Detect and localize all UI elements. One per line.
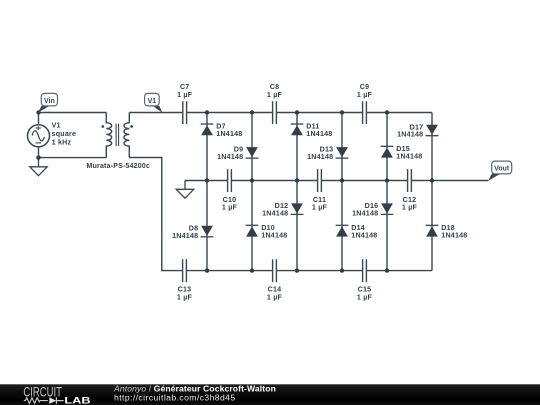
junction bottom rail D8 [205,268,209,272]
junction mid rail D7/D8 [205,178,209,182]
label D14 [351,224,377,239]
svg-text:1N4148: 1N4148 [441,231,467,239]
svg-text:1N4148: 1N4148 [352,209,378,217]
wire bottom rail segment C13 to C14 [187,270,272,272]
junction top rail D13 [340,110,344,114]
node flag V1 [145,93,163,112]
label C13 [177,285,193,301]
wire secondary bottom down to bottom rail [129,158,182,271]
capacitor C9 [363,101,367,124]
junction top rail D9 [250,110,254,114]
node flag Vin [38,93,58,112]
svg-text:1N4148: 1N4148 [261,231,287,239]
wire column D13 [341,113,343,181]
junction mid rail D13/D14 [340,178,344,182]
wire column D12 [296,181,298,271]
capacitor C10 [228,169,232,192]
diode D8 [201,226,214,237]
label C10 [222,196,238,212]
voltage source V1 value labels [52,122,77,147]
svg-text:C10: C10 [223,196,237,204]
label D7 [216,123,242,138]
ground under source [30,158,47,176]
svg-text:1 µF: 1 µF [177,293,193,301]
voltage source V1 [28,125,50,147]
capacitor C15 [363,259,367,282]
junction bottom rail D16 [385,268,389,272]
svg-text:V1: V1 [52,122,61,130]
wire secondary top to C7 [129,112,182,114]
label D18 [441,224,467,239]
wire column D9 [251,113,253,181]
svg-text:C12: C12 [403,196,417,204]
capacitor C13 [183,259,187,282]
label D15 [396,145,422,160]
svg-text:CIRCUIT: CIRCUIT [23,383,62,399]
wire column D11 [296,113,298,181]
footer bar [0,384,540,405]
junction bottom rail D12 [295,268,299,272]
label D10 [261,224,287,239]
wire column D18 [431,181,433,271]
wire middle rail segment C12 to Vout [412,180,489,182]
wire middle rail segment C11 to C12 [322,180,408,182]
diode D12 [291,203,304,214]
wire top-left from source to primary [39,113,107,125]
svg-text:1N4148: 1N4148 [306,130,332,138]
wire bottom rail segment C15 to corner at D18 [367,270,432,272]
label D13 [307,146,333,161]
junction bottom rail D10 [250,268,254,272]
svg-text:1 µF: 1 µF [267,293,283,301]
label D17 [397,123,423,138]
svg-text:1N4148: 1N4148 [396,152,422,160]
diode D14 [336,225,349,236]
capacitor C12 [408,169,412,192]
label C14 [267,285,283,301]
junction mid rail D17/D18 [430,178,434,182]
wire column D10 [251,181,253,271]
svg-text:1N4148: 1N4148 [307,153,333,161]
wire column D15 [386,113,388,181]
capacitor C11 [318,169,322,192]
label D8 [172,224,198,239]
svg-text:Murata-PS-54200c: Murata-PS-54200c [87,162,151,170]
svg-text:1 µF: 1 µF [267,91,283,99]
junction mid rail D15/D16 [385,178,389,182]
wire middle rail ground to C10 [185,180,228,182]
wire top rail segment C8 to C9 [277,112,363,114]
wire top rail segment C7 to C8 [187,112,272,114]
diode D13 [336,147,349,158]
svg-text:C14: C14 [268,285,282,293]
svg-text:LAB: LAB [64,396,90,405]
label D9 [217,146,243,161]
svg-text:V1: V1 [148,98,157,105]
junction mid rail D9/D10 [250,178,254,182]
wire column D7 [206,113,208,181]
label C12 [402,196,418,212]
svg-text:C15: C15 [358,285,372,293]
junction mid rail D11/D12 [295,178,299,182]
svg-text:1 µF: 1 µF [177,91,193,99]
ground on middle rail [176,181,194,199]
diode D11 [291,124,304,135]
junction source top / Vin [36,110,40,114]
diode D16 [381,203,394,214]
junction source bottom [36,155,40,159]
junction bottom rail D14 [340,268,344,272]
svg-text:1N4148: 1N4148 [172,232,198,240]
svg-text:1N4148: 1N4148 [351,231,377,239]
svg-text:http://circuitlab.com/c3h8d45: http://circuitlab.com/c3h8d45 [114,392,236,402]
svg-text:square: square [52,130,77,138]
label D11 [306,123,332,138]
svg-text:Vin: Vin [44,98,55,105]
wire middle rail segment C10 to C11 [232,180,318,182]
svg-text:1N4148: 1N4148 [397,131,423,139]
capacitor C7 [183,101,187,124]
node flag Vout [488,161,512,181]
svg-text:C9: C9 [360,83,370,91]
junction top rail D7 [205,110,209,114]
wire bottom-left from source to primary [39,147,107,158]
diode D10 [246,225,259,236]
label C8 [267,83,283,99]
diode D18 [426,225,439,236]
diode D9 [246,147,259,158]
label C11 [312,196,328,212]
wire column D16 [386,181,388,271]
transformer T1 Murata-PS-54200c [101,113,133,158]
svg-text:1 kHz: 1 kHz [52,139,72,147]
svg-text:1 µF: 1 µF [357,293,373,301]
label D12 [262,202,288,217]
svg-text:C13: C13 [178,285,192,293]
svg-text:1N4148: 1N4148 [262,209,288,217]
diode D15 [381,146,394,157]
wire column D17 [431,113,433,181]
svg-text:C7: C7 [180,83,190,91]
junction top rail D11 [295,110,299,114]
svg-text:1N4148: 1N4148 [217,153,243,161]
svg-text:1 µF: 1 µF [402,204,418,212]
svg-text:C11: C11 [313,196,326,204]
wire column D14 [341,181,343,271]
svg-text:1N4148: 1N4148 [216,130,242,138]
junction top rail D15 [385,110,389,114]
wire bottom rail segment C14 to C15 [277,270,363,272]
label C15 [357,285,373,301]
svg-text:1 µF: 1 µF [312,204,328,212]
capacitor C8 [273,101,277,124]
label C7 [177,83,193,99]
svg-text:1 µF: 1 µF [357,91,373,99]
svg-text:C8: C8 [270,83,280,91]
CircuitLab logo [23,383,90,405]
svg-text:1 µF: 1 µF [222,204,238,212]
label C9 [357,83,373,99]
label D16 [352,202,378,217]
diode D17 [426,125,439,136]
svg-text:Vout: Vout [494,166,510,173]
wire column D8 [206,181,208,271]
diode D7 [201,124,214,135]
wire top rail segment C9 to corner at D17 [367,112,432,114]
capacitor C14 [273,259,277,282]
